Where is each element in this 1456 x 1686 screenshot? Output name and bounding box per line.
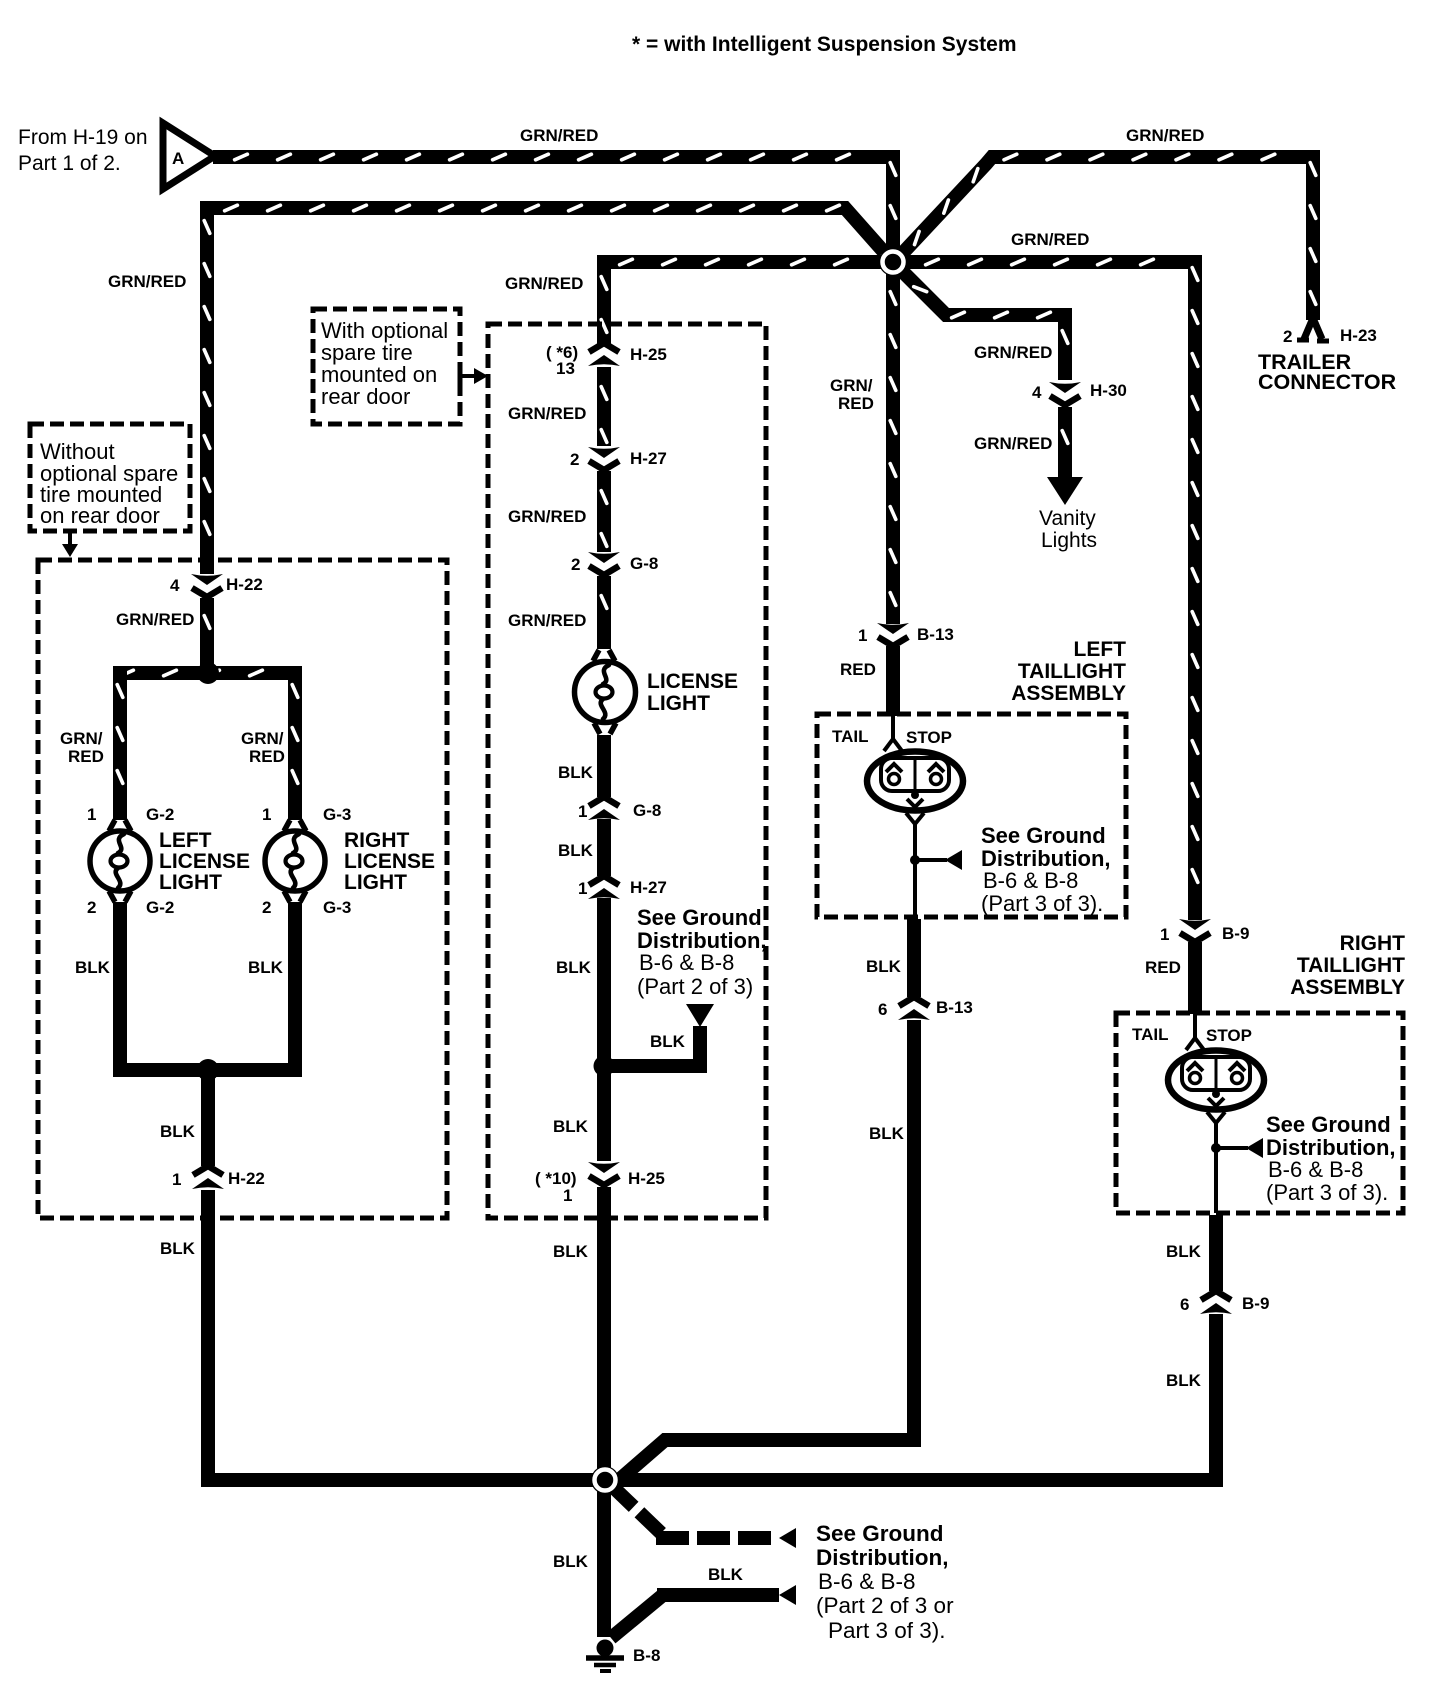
label pin 1 G-8 lower xyxy=(578,801,661,821)
dashed box: left taillight assembly xyxy=(817,714,1126,917)
svg-text:Vanity: Vanity xyxy=(1039,507,1096,530)
svg-text:LICENSE: LICENSE xyxy=(647,670,738,693)
svg-text:LIGHT: LIGHT xyxy=(344,871,407,894)
svg-text:GRN/: GRN/ xyxy=(830,376,873,395)
svg-text:(Part 3 of 3).: (Part 3 of 3). xyxy=(981,891,1103,916)
svg-text:BLK: BLK xyxy=(558,763,594,782)
svg-text:GRN/: GRN/ xyxy=(241,729,284,748)
label GRN/RED below H-22 xyxy=(116,610,194,629)
label LEFT LICENSE LIGHT xyxy=(159,829,250,894)
label BLK #16 xyxy=(553,1552,589,1571)
svg-text:H-30: H-30 xyxy=(1090,381,1127,400)
wire lead out of right taillight bulb xyxy=(1207,1112,1225,1213)
wire lead out of left taillight bulb xyxy=(906,813,924,917)
label RIGHT TAILLIGHT ASSEMBLY xyxy=(1290,932,1405,999)
svg-text:1: 1 xyxy=(578,879,587,898)
svg-text:G-3: G-3 xyxy=(323,805,351,824)
svg-text:B-13: B-13 xyxy=(936,998,973,1017)
label GRN/RED left vertical xyxy=(108,272,186,291)
lamp LEFT LICENSE LIGHT xyxy=(90,820,150,902)
svg-text:H-27: H-27 xyxy=(630,878,667,897)
label BLK #6 xyxy=(558,841,594,860)
label RIGHT LICENSE LIGHT xyxy=(344,829,435,894)
svg-text:on rear door: on rear door xyxy=(40,503,160,528)
svg-text:Part 1 of 2.: Part 1 of 2. xyxy=(18,152,121,175)
label pin 2 G-8 xyxy=(571,554,658,574)
svg-text:CONNECTOR: CONNECTOR xyxy=(1258,370,1397,394)
svg-text:1: 1 xyxy=(1160,925,1169,944)
junction dot license loop bottom xyxy=(197,1059,219,1081)
wire lead into left taillight bulb xyxy=(884,714,902,751)
label BLK #1 xyxy=(75,958,111,977)
dashed note box: Without optional spare tire mounted on rear door xyxy=(30,424,190,531)
svg-text:GRN/RED: GRN/RED xyxy=(974,434,1052,453)
connector B-9 lower (pin 6) xyxy=(1200,1291,1232,1314)
label BLK #10 xyxy=(650,1032,686,1051)
svg-text:G-2: G-2 xyxy=(146,898,174,917)
label RED left taillight feed xyxy=(840,660,876,679)
svg-text:BLK: BLK xyxy=(556,958,592,977)
label BLK #11 xyxy=(866,957,902,976)
label See Ground Distribution (left taillight) xyxy=(981,823,1111,916)
svg-text:G-3: G-3 xyxy=(323,898,351,917)
wire GRN/RED license loop top bar xyxy=(113,670,302,676)
label LEFT TAILLIGHT ASSEMBLY xyxy=(1011,638,1126,705)
wire BLK from B-13 lower down, left to bottom junction xyxy=(612,1020,914,1486)
label BLK #12 xyxy=(869,1124,905,1143)
wire BLK from loop to H-22 lower connector xyxy=(201,1077,215,1166)
svg-text:B-9: B-9 xyxy=(1222,924,1249,943)
junction dot right taillight ground lead xyxy=(1211,1143,1221,1153)
svg-text:ASSEMBLY: ASSEMBLY xyxy=(1290,976,1405,999)
svg-text:BLK: BLK xyxy=(708,1565,744,1584)
svg-text:BLK: BLK xyxy=(866,957,902,976)
label GRN/RED middle column top xyxy=(505,274,583,293)
label GRN/RED vanity branch xyxy=(974,343,1052,362)
label pin 2 H-27 xyxy=(570,449,667,469)
svg-text:TAIL: TAIL xyxy=(1132,1025,1169,1044)
wire lead into right taillight bulb xyxy=(1186,1013,1204,1050)
svg-text:GRN/RED: GRN/RED xyxy=(508,404,586,423)
svg-text:B-6 & B-8: B-6 & B-8 xyxy=(818,1569,916,1594)
wire GRN/RED left license light leg xyxy=(117,667,123,820)
svg-text:GRN/RED: GRN/RED xyxy=(520,126,598,145)
svg-text:2: 2 xyxy=(262,898,271,917)
svg-text:GRN/RED: GRN/RED xyxy=(508,611,586,630)
label pin 2 H-23 xyxy=(1283,326,1377,346)
svg-text:BLK: BLK xyxy=(160,1239,196,1258)
svg-text:H-22: H-22 xyxy=(226,575,263,594)
connector A (from H-19) xyxy=(163,123,215,189)
wire GRN/RED right license light leg xyxy=(292,667,298,820)
svg-text:13: 13 xyxy=(556,359,575,378)
svg-text:4: 4 xyxy=(170,576,180,595)
svg-text:STOP: STOP xyxy=(906,728,952,747)
wire BLK from H-25 lower through bottom junction to ground xyxy=(597,1187,611,1637)
wire BLK branch to See Ground Distribution (lower) xyxy=(611,1595,779,1638)
label LICENSE LIGHT xyxy=(647,670,738,715)
svg-text:1: 1 xyxy=(578,802,587,821)
connector B-13 lower (pin 6) xyxy=(898,997,930,1020)
label pin 4 H-30 xyxy=(1032,381,1127,402)
connector H-27 (pin 2) xyxy=(588,447,620,470)
label GRN/RED below H-30 xyxy=(974,434,1052,453)
label BLK #2 xyxy=(248,958,284,977)
svg-text:(Part 2 of 3): (Part 2 of 3) xyxy=(637,974,753,999)
wire GRN/RED from A to junction (top horizontal, turns down at x=893) xyxy=(213,154,896,624)
svg-text:RIGHT: RIGHT xyxy=(1340,932,1406,955)
branch to ground distribution (right taillight) xyxy=(1216,1138,1263,1158)
label GRN/RED below G-8 xyxy=(508,611,586,630)
svg-text:See Ground: See Ground xyxy=(637,905,762,930)
svg-text:See Ground: See Ground xyxy=(1266,1112,1391,1137)
svg-text:H-25: H-25 xyxy=(628,1169,665,1188)
svg-text:LEFT: LEFT xyxy=(1074,638,1127,661)
label GRN/RED between H-27 and G-8 xyxy=(508,507,586,526)
svg-text:TAILLIGHT: TAILLIGHT xyxy=(1297,954,1405,977)
junction dot left taillight ground lead xyxy=(910,855,920,865)
wire BLK below left license light xyxy=(113,902,127,1063)
wire BLK branch from mid dot to ground-distribution arrow xyxy=(611,1026,700,1066)
svg-text:B-6 & B-8: B-6 & B-8 xyxy=(1268,1157,1363,1182)
svg-text:2: 2 xyxy=(1283,327,1292,346)
connector H-22 (pin 4) xyxy=(191,574,223,597)
note: asterisk legend xyxy=(632,33,1017,56)
svg-text:1: 1 xyxy=(87,805,96,824)
connector B-13 (pin 1) xyxy=(877,623,909,646)
svg-text:GRN/: GRN/ xyxy=(60,729,103,748)
label GRN/RED top horizontal xyxy=(520,126,598,145)
svg-text:6: 6 xyxy=(1180,1295,1189,1314)
svg-text:B-13: B-13 xyxy=(917,625,954,644)
svg-text:1: 1 xyxy=(172,1170,181,1189)
label BLK #13 xyxy=(1166,1242,1202,1261)
label pin 1 H-22 lower xyxy=(172,1169,265,1189)
svg-text:rear door: rear door xyxy=(321,384,410,409)
label TAIL STOP (left) xyxy=(832,727,952,747)
svg-text:ASSEMBLY: ASSEMBLY xyxy=(1011,682,1126,705)
svg-text:LIGHT: LIGHT xyxy=(159,871,222,894)
svg-text:2: 2 xyxy=(570,450,579,469)
label BLK #3 xyxy=(160,1122,196,1141)
label pins left license light xyxy=(87,805,174,917)
wire BLK bottom horizontal run xyxy=(201,1473,1223,1487)
svg-text:1: 1 xyxy=(563,1186,572,1205)
label GRN/RED left loop left (two line) xyxy=(60,729,104,766)
svg-text:6: 6 xyxy=(878,1000,887,1019)
label pins right license light xyxy=(262,805,351,917)
wire BLK below left taillight to B-13 lower xyxy=(907,919,921,997)
svg-text:2: 2 xyxy=(87,898,96,917)
wire GRN/RED between H-27 and G-8 xyxy=(601,471,607,552)
label BLK #9 xyxy=(553,1242,589,1261)
wire GRN/RED from H-30 to vanity lights arrow xyxy=(1062,407,1068,480)
svg-text:B-6 & B-8: B-6 & B-8 xyxy=(639,950,734,975)
label BLK #5 xyxy=(558,763,594,782)
wire GRN/RED second horizontal to left column, diagonal into junction xyxy=(204,205,884,574)
wire GRN/RED below H-22 to license loop xyxy=(204,598,210,666)
connector H-22 lower (pin 1) xyxy=(192,1166,224,1189)
wire BLK license loop bottom bar xyxy=(113,1063,302,1077)
svg-text:GRN/RED: GRN/RED xyxy=(108,272,186,291)
wire GRN/RED diagonal up-right from junction to trailer connector drop xyxy=(899,154,1316,320)
label TRAILER CONNECTOR xyxy=(1258,350,1397,394)
ground B-8 xyxy=(586,1640,624,1672)
label pin 1 H-27 lower xyxy=(578,878,667,898)
label TAIL STOP (right) xyxy=(1132,1025,1252,1045)
arrow to See Ground Distribution (upper bottom) xyxy=(779,1528,796,1548)
svg-text:BLK: BLK xyxy=(160,1122,196,1141)
label See Ground Distribution (right taillight) xyxy=(1266,1112,1396,1205)
connector G-8 (pin 2) xyxy=(588,552,620,575)
label pin ( *6) 13 H-25 xyxy=(546,343,667,378)
svg-text:GRN/RED: GRN/RED xyxy=(116,610,194,629)
svg-text:H-22: H-22 xyxy=(228,1169,265,1188)
label pin ( *10) 1 H-25 lower xyxy=(535,1169,665,1205)
svg-text:BLK: BLK xyxy=(558,841,594,860)
branch to ground distribution (left taillight) xyxy=(915,850,962,870)
lamp LICENSE LIGHT (with spare) xyxy=(575,650,636,734)
svg-text:H-27: H-27 xyxy=(630,449,667,468)
label BLK #15 xyxy=(708,1565,744,1584)
label Vanity Lights xyxy=(1039,507,1097,552)
svg-text:B-8: B-8 xyxy=(633,1646,660,1665)
svg-text:B-9: B-9 xyxy=(1242,1294,1269,1313)
junction dot mid column xyxy=(594,1056,615,1077)
wire BLK below H-27 to mid junction dot xyxy=(597,898,611,1060)
dashed box: without-spare license light circuit xyxy=(38,560,447,1218)
arrow from With-optional note to circuit xyxy=(460,368,488,384)
wire BLK below right license light xyxy=(288,902,302,1063)
svg-text:(Part 2 of 3 or: (Part 2 of 3 or xyxy=(816,1593,954,1618)
label pin 1 B-13 xyxy=(858,625,954,645)
wire RED from B-13 to left taillight box xyxy=(886,646,900,716)
wire BLK from H-22 to bottom run xyxy=(201,1190,215,1480)
connector B-9 (pin 1) xyxy=(1179,919,1211,942)
svg-text:H-23: H-23 xyxy=(1340,326,1377,345)
wire GRN/RED between G-8 and license light xyxy=(601,576,607,649)
svg-text:LIGHT: LIGHT xyxy=(647,692,710,715)
svg-text:BLK: BLK xyxy=(869,1124,905,1143)
label BLK #14 xyxy=(1166,1371,1202,1390)
svg-text:Lights: Lights xyxy=(1041,529,1097,552)
dashed note box: With optional spare tire mounted on rear door xyxy=(313,309,460,424)
label RED right taillight feed xyxy=(1145,958,1181,977)
svg-text:G-8: G-8 xyxy=(633,801,661,820)
wire BLK dashed branch to See Ground Distribution (upper) xyxy=(612,1486,779,1538)
svg-text:GRN/RED: GRN/RED xyxy=(1011,230,1089,249)
svg-text:TAIL: TAIL xyxy=(832,727,869,746)
connector H-30 (pin 4) xyxy=(1049,382,1081,405)
label pin 6 B-13 lower xyxy=(878,998,973,1019)
wire GRN/RED diagonal down-right from junction, vanity branch, down to H-30 xyxy=(899,268,1068,380)
svg-text:LICENSE: LICENSE xyxy=(344,850,435,873)
svg-text:RED: RED xyxy=(840,660,876,679)
wire BLK below right taillight to B-9 lower xyxy=(1209,1215,1223,1291)
arrow to See Ground Distribution (mid column) xyxy=(686,1004,714,1027)
svg-text:See Ground: See Ground xyxy=(816,1521,944,1546)
dashed box: with-spare license light circuit xyxy=(488,324,766,1218)
svg-text:RED: RED xyxy=(68,747,104,766)
svg-text:BLK: BLK xyxy=(553,1242,589,1261)
svg-text:4: 4 xyxy=(1032,383,1042,402)
svg-text:Distribution,: Distribution, xyxy=(816,1545,948,1570)
wire GRN/RED from junction left to middle column (turns down at x=604) xyxy=(601,259,884,344)
svg-text:GRN/RED: GRN/RED xyxy=(505,274,583,293)
svg-text:BLK: BLK xyxy=(650,1032,686,1051)
svg-text:GRN/RED: GRN/RED xyxy=(1126,126,1204,145)
wire RED from B-9 to right taillight box xyxy=(1188,942,1202,1014)
label pin 4 H-22 xyxy=(170,575,263,595)
svg-text:B-6 & B-8: B-6 & B-8 xyxy=(983,868,1078,893)
label GRN/RED junction drop (two line) xyxy=(830,376,874,413)
svg-text:BLK: BLK xyxy=(553,1552,589,1571)
label See Ground Distribution (mid column) xyxy=(637,905,767,999)
label pin 6 B-9 lower xyxy=(1180,1294,1269,1314)
svg-text:GRN/RED: GRN/RED xyxy=(508,507,586,526)
svg-text:See Ground: See Ground xyxy=(981,823,1106,848)
svg-text:From H-19 on: From H-19 on xyxy=(18,126,148,149)
svg-text:BLK: BLK xyxy=(553,1117,589,1136)
arrow to Vanity Lights xyxy=(1047,477,1083,505)
wire GRN/RED between H-25 and H-27 xyxy=(601,367,607,446)
svg-text:2: 2 xyxy=(571,555,580,574)
junction node (top, x=893 y=262) xyxy=(879,248,907,276)
wire BLK below license light to G-8 lower xyxy=(597,735,611,797)
svg-text:RED: RED xyxy=(1145,958,1181,977)
arrow to See Ground Distribution (lower bottom) xyxy=(779,1585,796,1605)
svg-text:STOP: STOP xyxy=(1206,1026,1252,1045)
svg-text:LEFT: LEFT xyxy=(159,829,212,852)
svg-text:1: 1 xyxy=(262,805,271,824)
wire BLK from B-9 lower to bottom run xyxy=(1209,1314,1223,1480)
dashed box: right taillight assembly xyxy=(1116,1013,1403,1213)
connector G-8 lower (pin 1) xyxy=(588,797,620,820)
svg-text:G-8: G-8 xyxy=(630,554,658,573)
wire BLK between G-8 and H-27 lower xyxy=(597,819,611,876)
label pin 1 B-9 xyxy=(1160,924,1249,944)
svg-text:BLK: BLK xyxy=(75,958,111,977)
svg-text:RED: RED xyxy=(249,747,285,766)
label See Ground Distribution (bottom) xyxy=(816,1521,954,1643)
svg-text:BLK: BLK xyxy=(1166,1242,1202,1261)
svg-text:BLK: BLK xyxy=(248,958,284,977)
label GRN/RED left loop right (two line) xyxy=(241,729,285,766)
label GRN/RED between H-25 and H-27 xyxy=(508,404,586,423)
label BLK #4 xyxy=(160,1239,196,1258)
svg-text:GRN/RED: GRN/RED xyxy=(974,343,1052,362)
label GRN/RED right of junction xyxy=(1011,230,1089,249)
lamp right taillight dual filament xyxy=(1168,1051,1264,1110)
label GRN/RED top right xyxy=(1126,126,1204,145)
label: From H-19 on Part 1 of 2 xyxy=(18,126,148,175)
wire BLK from mid dot to H-25 lower xyxy=(597,1073,611,1161)
svg-text:TAILLIGHT: TAILLIGHT xyxy=(1018,660,1126,683)
arrow from Without-optional note to circuit xyxy=(62,531,78,557)
svg-text:1: 1 xyxy=(858,626,867,645)
junction dot license loop top xyxy=(197,662,219,684)
connector H-27 lower (pin 1) xyxy=(588,876,620,899)
svg-text:* = with Intelligent Suspensio: * = with Intelligent Suspension System xyxy=(632,33,1017,56)
label B-8 xyxy=(633,1646,660,1665)
svg-text:A: A xyxy=(172,149,184,168)
svg-text:RED: RED xyxy=(838,394,874,413)
lamp left taillight dual filament xyxy=(867,752,963,811)
junction node (bottom, x=605 y=1480) xyxy=(591,1466,619,1494)
label BLK #7 xyxy=(556,958,592,977)
connector H-25 (pin 13) xyxy=(588,343,620,366)
wire GRN/RED from junction right then down right column to B-9 xyxy=(902,259,1198,920)
svg-text:Part 3 of 3).: Part 3 of 3). xyxy=(828,1618,946,1643)
svg-text:BLK: BLK xyxy=(1166,1371,1202,1390)
svg-text:G-2: G-2 xyxy=(146,805,174,824)
svg-text:LICENSE: LICENSE xyxy=(159,850,250,873)
svg-text:H-25: H-25 xyxy=(630,345,667,364)
connector H-23 trailer fork xyxy=(1297,318,1329,341)
lamp RIGHT LICENSE LIGHT xyxy=(265,820,325,902)
svg-text:RIGHT: RIGHT xyxy=(344,829,410,852)
connector H-25 lower (pin 1, *10) xyxy=(588,1162,620,1185)
label BLK #8 xyxy=(553,1117,589,1136)
svg-text:(Part 3 of 3).: (Part 3 of 3). xyxy=(1266,1180,1388,1205)
